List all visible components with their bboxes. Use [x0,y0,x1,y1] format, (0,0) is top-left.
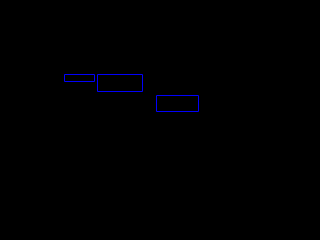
box B2 (medium outlined rectangle) [97,74,143,92]
box B1 (small outlined rectangle) [64,74,95,82]
box B3 (lower-right outlined rectangle) [156,95,199,113]
